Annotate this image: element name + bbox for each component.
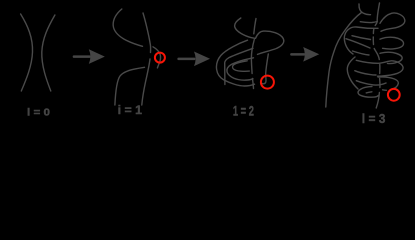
- arrow 1 shaft: [73, 55, 91, 58]
- panel i=3 : wide run B + left C1: [344, 27, 378, 54]
- arrow 2 shaft: [177, 58, 195, 61]
- panel i=3 : lower curve (y~83): [356, 81, 386, 85]
- panel i=3 : loop 3: [380, 52, 402, 63]
- panel i=3 : diag 1: [352, 36, 371, 40]
- panel i=2 : tip: [262, 54, 269, 84]
- panel i=2 : inner small arc: [233, 61, 250, 72]
- panel i=2 : big right loop: [256, 31, 284, 54]
- panel i=3 : inner bottom arc: [366, 92, 372, 93]
- panel i=3 : line A: [360, 22, 377, 23]
- arrow 3 head: [303, 47, 319, 62]
- arrow 3 shaft: [290, 53, 305, 56]
- panel i=3 : diag 2: [346, 39, 370, 48]
- panel i=2 : mid return + exit leg: [225, 48, 253, 84]
- svg-text:1 = 2: 1 = 2: [233, 104, 254, 119]
- panel i=3 : run y60 + loop 4: [356, 60, 403, 76]
- red circle marker, panel i=2: [261, 76, 274, 89]
- panel i=3 : entry curve: [359, 4, 371, 15]
- panel i=3 : left sweep: [326, 13, 362, 108]
- arrow 2 head: [194, 52, 210, 67]
- panel i=3 : tip hook into circle: [378, 77, 398, 89]
- panel i=0 : right strand: [42, 15, 55, 91]
- svg-text:l = 0: l = 0: [27, 106, 50, 118]
- red circle marker, panel i=3: [388, 89, 400, 101]
- panel i=3 : diag 3: [353, 51, 370, 55]
- panel i=3 : tip segment: [383, 89, 387, 92]
- panel i=2 : outer left wrap: [216, 40, 254, 86]
- panel i=1 : entry curve: [113, 9, 142, 46]
- panel i=1 : right strand (lower): [142, 59, 150, 105]
- panel i=0 : left strand: [21, 14, 33, 91]
- red circle marker, panel i=1: [155, 53, 165, 63]
- panel i=1 : right strand (upper): [143, 13, 151, 53]
- panel i=1 : bottom return: [115, 67, 145, 105]
- panel i=1 : hook over: [153, 47, 161, 68]
- panel i=3 : right strand segments: [375, 3, 379, 26]
- svg-text:i = 1: i = 1: [118, 103, 143, 117]
- panel i=2 : entry curve: [235, 18, 255, 38]
- svg-text:l = 3: l = 3: [362, 111, 386, 126]
- panel i=3 : left C2: [347, 57, 358, 89]
- panel i=2 : inner c loop: [227, 58, 254, 80]
- panel i=3 : loop 1: [380, 13, 405, 31]
- arrow 1 head: [89, 49, 105, 64]
- panel i=3 : mid arc (y~73): [355, 71, 376, 75]
- panel i=3 : loop 2: [380, 37, 404, 49]
- panel i=3 : bottom C loop: [358, 87, 379, 98]
- panel i=2 : right strand: [254, 19, 256, 34]
